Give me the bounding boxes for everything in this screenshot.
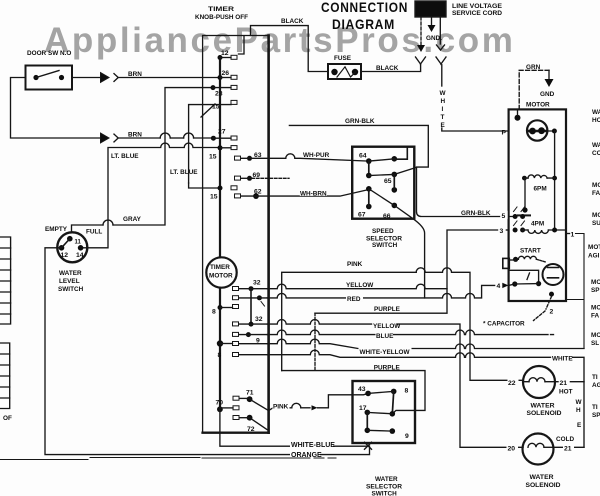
wire grn with gnd symbol — [519, 70, 549, 109]
svg-text:11: 11 — [75, 240, 82, 246]
speed selector exit wires — [394, 147, 408, 160]
svg-text:SWITCH: SWITCH — [58, 286, 84, 293]
timer box — [203, 36, 269, 433]
timer terminal row b — [233, 296, 239, 300]
wire gray: water level sw to timer 28 — [72, 225, 104, 233]
svg-text:8: 8 — [405, 388, 409, 395]
arrow into motor 4 — [502, 283, 509, 289]
wire pink: timer 71 to water selector 43 — [269, 408, 292, 411]
svg-text:SELECTOR: SELECTOR — [366, 484, 402, 491]
wire grn-blk: to motor 5 — [289, 125, 513, 216]
svg-text:SP: SP — [592, 412, 600, 419]
svg-text:WATER: WATER — [530, 474, 554, 481]
speed selector terminal 65 — [392, 172, 398, 178]
svg-text:MOTOR: MOTOR — [526, 102, 550, 109]
timer terminal 32a — [233, 287, 239, 291]
timer jumper 32a-32b — [250, 289, 252, 324]
svg-text:GRN: GRN — [526, 64, 541, 71]
svg-text:BRN: BRN — [128, 132, 142, 139]
timer terminal 12 — [218, 55, 223, 60]
timer internal feed from top — [239, 36, 245, 54]
svg-text:15: 15 — [209, 154, 217, 161]
svg-text:OF: OF — [3, 415, 12, 422]
timer contact blade 72 — [250, 418, 267, 430]
svg-text:HOT: HOT — [559, 389, 573, 396]
timer contact blade 71 — [250, 399, 269, 410]
wire white: to solenoid bus — [573, 357, 585, 447]
arrowhead L1 — [417, 45, 425, 52]
svg-text:WH-PUR: WH-PUR — [303, 152, 330, 159]
timer terminal 15c — [231, 186, 237, 190]
svg-text:BRN: BRN — [128, 71, 142, 78]
svg-text:FUSE: FUSE — [334, 55, 352, 62]
svg-text:WHITE-YELLOW: WHITE-YELLOW — [360, 349, 411, 356]
svg-text:GND: GND — [540, 91, 555, 98]
svg-text:8: 8 — [218, 352, 222, 359]
svg-text:GRAY: GRAY — [123, 216, 142, 223]
svg-text:PURPLE: PURPLE — [374, 306, 401, 313]
terminal strip ladder lower-left — [0, 343, 10, 409]
svg-text:1: 1 — [571, 232, 575, 239]
svg-text:GRN-BLK: GRN-BLK — [461, 210, 491, 217]
wire purple1: to motor 3 — [315, 230, 499, 313]
svg-text:DOOR SW N.O: DOOR SW N.O — [27, 50, 71, 57]
svg-text:64: 64 — [359, 153, 367, 160]
wire black: fuse to cord — [361, 65, 421, 72]
water level switch PS1 — [57, 232, 87, 262]
fork terminal left — [416, 57, 426, 65]
svg-text:12: 12 — [221, 50, 229, 57]
timer box bottom thick — [203, 432, 269, 434]
svg-text:2: 2 — [550, 309, 554, 316]
label BLUE — [376, 331, 394, 338]
timer terminal 70 — [217, 406, 223, 412]
svg-text:62: 62 — [254, 189, 262, 196]
svg-text:4: 4 — [497, 283, 501, 290]
svg-text:E: E — [577, 422, 582, 429]
svg-text:YELLOW: YELLOW — [346, 282, 374, 289]
svg-text:W: W — [440, 90, 447, 97]
svg-text:RED: RED — [347, 296, 361, 303]
svg-text:I: I — [442, 106, 444, 113]
svg-text:WA: WA — [592, 109, 600, 116]
gnd arrowhead — [545, 79, 554, 87]
label ORANGE — [290, 450, 320, 458]
timer terminal 15b — [218, 145, 223, 150]
svg-text:WATER: WATER — [375, 476, 398, 483]
X junction water selector bottom — [365, 442, 372, 449]
bottom sheet edge line — [0, 458, 336, 460]
svg-text:27: 27 — [218, 129, 226, 136]
svg-text:CO: CO — [592, 150, 600, 157]
wire wh-brn: timer 62 to speed selector 67 — [269, 190, 368, 197]
hot water solenoid L1 — [523, 366, 555, 398]
svg-text:E: E — [441, 122, 446, 129]
svg-text:32: 32 — [255, 316, 263, 323]
svg-text:MO: MO — [591, 332, 600, 339]
motor centrifugal switch — [543, 264, 564, 285]
timer terminal 62 — [235, 194, 241, 198]
purple riser dashed — [314, 313, 316, 370]
wire lt.blue1: water level sw to timer 15 — [83, 143, 219, 248]
label WH-BRN — [300, 189, 327, 196]
svg-text:6PM: 6PM — [534, 186, 547, 193]
svg-text:4PM: 4PM — [531, 221, 544, 228]
svg-text:72: 72 — [247, 426, 255, 433]
motor thermal protector — [527, 120, 547, 140]
speed selector terminal 64 — [366, 158, 372, 164]
wire lt.blue2: timer 15 riser — [189, 105, 231, 183]
open arrowhead N — [437, 45, 445, 50]
timer terminal 27 — [211, 136, 216, 141]
fuse element — [331, 69, 337, 75]
wire white-yellow band — [267, 339, 584, 348]
wire brn1: door sw to timer 26 — [72, 77, 100, 79]
label GRN-BLK 2 — [461, 209, 493, 216]
svg-text:EMPTY: EMPTY — [45, 226, 68, 233]
timer box right edge thick — [267, 36, 270, 433]
speed selector 66 diagonal — [394, 205, 424, 298]
svg-text:12: 12 — [61, 252, 69, 259]
motor top-left node — [515, 115, 521, 121]
svg-text:FULL: FULL — [86, 229, 102, 236]
svg-text:SERVICE CORD: SERVICE CORD — [452, 10, 502, 17]
timer terminal 63 — [235, 156, 241, 160]
svg-text:PURPLE: PURPLE — [374, 365, 401, 372]
svg-text:PINK: PINK — [273, 404, 289, 411]
wire hop brn2 over lt-blue riser — [184, 133, 194, 138]
svg-text:SWITCH: SWITCH — [372, 491, 398, 496]
service cord plug — [415, 1, 446, 17]
svg-text:MO: MO — [592, 212, 600, 219]
svg-text:66: 66 — [383, 213, 391, 220]
svg-text:TI: TI — [592, 374, 598, 381]
svg-text:3: 3 — [500, 228, 504, 235]
svg-text:SU: SU — [592, 220, 600, 227]
svg-text:BLACK: BLACK — [376, 65, 399, 72]
svg-text:SWITCH: SWITCH — [372, 242, 398, 249]
svg-text:71: 71 — [246, 390, 254, 397]
svg-text:15: 15 — [210, 194, 218, 201]
wire yellow2 band: to cold solenoid 20 — [267, 320, 523, 448]
wire to terminal 1 — [566, 233, 570, 235]
svg-text:17: 17 — [359, 405, 367, 412]
svg-text:H: H — [441, 98, 446, 105]
label RED — [346, 294, 363, 301]
label PINK (timer 71) — [273, 403, 290, 410]
speed selector terminal pair bar — [368, 161, 370, 175]
speed selector terminal 66 — [392, 156, 398, 162]
motor terminal 5 — [500, 211, 508, 219]
svg-text:9: 9 — [405, 433, 409, 440]
svg-text:SL: SL — [591, 340, 599, 347]
timer terminal 8b — [217, 340, 223, 346]
cold water solenoid L2 — [523, 434, 554, 465]
wire hop gray over ltblue1 riser — [103, 220, 113, 225]
motor start switch — [509, 270, 538, 283]
svg-text:TI: TI — [592, 404, 598, 411]
svg-text:67: 67 — [358, 212, 366, 219]
motor internal right bus — [554, 131, 556, 230]
wire white-blue: timer 70 to water selector — [220, 409, 368, 446]
fork terminal right — [436, 57, 446, 65]
svg-text:COLD: COLD — [556, 436, 574, 443]
svg-text:PINK: PINK — [347, 261, 363, 268]
label WHITE-BLUE — [290, 440, 333, 448]
svg-text:20: 20 — [508, 446, 516, 453]
svg-text:8: 8 — [212, 309, 216, 316]
svg-text:TIMER: TIMER — [208, 6, 234, 13]
fuse F1 box — [328, 64, 361, 79]
speed selector blades — [369, 159, 395, 206]
timer terminal 8a — [218, 305, 223, 310]
service cord lead N — [439, 17, 441, 44]
svg-text:70: 70 — [216, 400, 224, 407]
svg-text:MO: MO — [591, 279, 600, 286]
water selector terminal 17 — [365, 410, 371, 416]
svg-text:BLUE: BLUE — [376, 333, 394, 340]
svg-text:LT. BLUE: LT. BLUE — [170, 169, 198, 176]
svg-text:SOLENOID: SOLENOID — [526, 482, 561, 489]
svg-text:5: 5 — [502, 213, 506, 220]
svg-text:WATER: WATER — [59, 270, 82, 277]
svg-text:GRN-BLK: GRN-BLK — [345, 118, 375, 125]
label 3 — [498, 226, 506, 234]
svg-text:HO: HO — [592, 117, 600, 124]
svg-text:CONNECTION: CONNECTION — [321, 0, 408, 15]
svg-text:LINE VOLTAGE: LINE VOLTAGE — [452, 3, 503, 10]
svg-text:KNOB-PUSH OFF: KNOB-PUSH OFF — [195, 14, 248, 21]
wire hop brn2 over gray riser — [160, 133, 170, 138]
svg-text:DIAGRAM: DIAGRAM — [332, 16, 395, 32]
svg-text:P: P — [502, 130, 507, 137]
timer terminal 32b — [233, 322, 239, 326]
timer terminal 72 — [233, 416, 239, 420]
terminal strip ladder upper-left — [0, 237, 11, 324]
svg-text:32: 32 — [253, 280, 261, 287]
svg-text:MOT: MOT — [588, 244, 600, 251]
water selector terminal 9 — [390, 428, 396, 434]
svg-text:MOTOR: MOTOR — [209, 273, 233, 280]
timer terminal 26 — [218, 75, 223, 80]
svg-text:LEVEL: LEVEL — [59, 278, 80, 285]
svg-text:AG: AG — [592, 382, 600, 389]
svg-text:BLACK: BLACK — [281, 18, 304, 25]
motor terminal 3 row / 4PM winding — [513, 228, 518, 233]
water selector switch box — [353, 381, 416, 443]
wire purple2: to water selector — [282, 371, 425, 414]
svg-text:WHITE-BLUE: WHITE-BLUE — [291, 442, 335, 449]
wire 69 stub — [252, 177, 289, 179]
timer terminal 69 — [235, 176, 241, 180]
svg-text:SOLENOID: SOLENOID — [527, 410, 562, 417]
svg-text:T: T — [441, 114, 445, 121]
svg-text:28: 28 — [215, 91, 223, 98]
motor box — [509, 109, 566, 301]
svg-text:21: 21 — [564, 446, 572, 453]
wire white: cord down to motor P — [441, 65, 443, 86]
connector chevrons brn1 — [101, 73, 110, 83]
water selector terminal 8 — [391, 389, 397, 395]
wire pink band: to hot solenoid 22 — [282, 272, 417, 370]
svg-text:WA: WA — [592, 142, 600, 149]
svg-text:W: W — [576, 399, 583, 406]
motor bottom node 2 — [549, 292, 554, 297]
timer bus — [219, 58, 221, 410]
svg-text:WATER: WATER — [531, 403, 555, 410]
svg-text:WH-BRN: WH-BRN — [300, 190, 327, 197]
svg-text:MO: MO — [591, 305, 600, 312]
timer terminal 15a — [231, 100, 237, 104]
svg-text:26: 26 — [222, 70, 230, 77]
wire brn2: door sw left, down, to timer 27 — [11, 78, 101, 139]
label WHITE-YELLOW — [359, 347, 412, 355]
svg-text:FA: FA — [591, 313, 600, 320]
speed selector terminal 67 — [366, 186, 372, 192]
svg-text:63: 63 — [254, 152, 262, 159]
svg-text:43: 43 — [358, 386, 366, 393]
service cord lead GND — [431, 17, 433, 26]
timer terminal row 354 — [233, 353, 239, 357]
timer terminal 71 — [233, 396, 239, 400]
timer contact blade 28-15 — [201, 104, 215, 117]
svg-text:AppliancePartsPros.com: AppliancePartsPros.com — [44, 21, 516, 60]
wire orange: water level sw to water selector — [45, 248, 370, 455]
speed selector switch box — [352, 147, 414, 219]
svg-text:WHITE: WHITE — [552, 356, 573, 363]
svg-text:* CAPACITOR: * CAPACITOR — [483, 321, 525, 328]
svg-text:AGI: AGI — [588, 253, 600, 260]
water selector terminal 43 — [365, 391, 371, 397]
svg-text:21: 21 — [560, 380, 568, 387]
svg-text:START: START — [520, 248, 541, 255]
label 4 — [495, 281, 502, 289]
svg-text:15: 15 — [212, 104, 220, 111]
wire wh-pur: timer 63 to speed selector 64 — [269, 154, 368, 161]
timer motor M2 — [206, 257, 236, 287]
svg-text:MO: MO — [592, 182, 600, 189]
svg-text:H: H — [576, 407, 581, 414]
svg-text:22: 22 — [508, 380, 516, 387]
label YELLOW2 — [372, 321, 396, 328]
svg-text:65: 65 — [384, 178, 392, 185]
connector chevrons brn2 — [101, 133, 110, 143]
svg-text:SP: SP — [591, 287, 600, 294]
wire black: timer top to fuse — [251, 26, 329, 72]
wire row354 link to purple2 — [267, 350, 550, 357]
wire blue band — [267, 330, 553, 334]
wire yellow band — [267, 284, 447, 289]
svg-text:LT. BLUE: LT. BLUE — [111, 153, 139, 160]
svg-text:FA: FA — [592, 190, 600, 197]
timer terminal 9 — [233, 332, 239, 336]
svg-text:14: 14 — [76, 252, 84, 259]
water selector blade 43-8 — [368, 391, 394, 393]
service cord lead L1 (dashed to arrow) — [420, 17, 422, 46]
timer terminal 28 — [211, 85, 216, 90]
svg-text:YELLOW: YELLOW — [373, 323, 401, 330]
arrowhead GND — [428, 25, 436, 32]
wire red band: to motor 4 — [267, 285, 502, 298]
svg-text:SPEED: SPEED — [372, 228, 394, 235]
svg-text:TIMER: TIMER — [210, 264, 230, 271]
motor 6PM winding — [528, 175, 547, 178]
